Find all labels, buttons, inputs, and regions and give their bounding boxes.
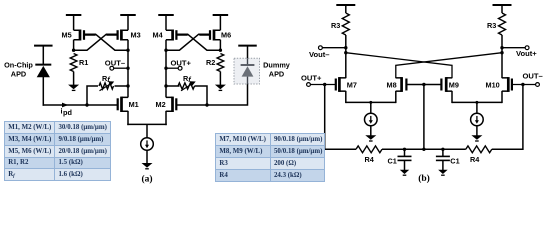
resistor Rf (right feedback): [166, 74, 207, 105]
wire ipd rail (APD to M1 gate): [43, 104, 118, 106]
photodiode Dummy APD: [241, 58, 255, 84]
ground (tail a): [142, 163, 153, 168]
wire M4 gate to M6 drain (cross): [176, 34, 220, 50]
junction source bar left: [369, 101, 372, 104]
svg-text:M1: M1: [129, 100, 139, 109]
photodiode On-Chip APD: [35, 65, 51, 78]
wire gate bus to bottom rail: [423, 85, 425, 150]
wire rail C1R to R4R: [443, 148, 466, 150]
resistor Rf (left feedback): [87, 74, 128, 105]
ground (C1 right): [438, 170, 448, 174]
ground (I2): [365, 135, 376, 140]
wire supply to R3 right: [501, 5, 503, 13]
wire M3 drain down (OUT- net top): [127, 40, 129, 50]
svg-text:On-Chip: On-Chip: [4, 61, 33, 70]
wire M2 source to tail: [165, 111, 167, 125]
junction rail / C1 left: [403, 148, 406, 151]
table circuit (a) component values: [4, 121, 111, 181]
supply bar (APD bias): [34, 45, 53, 47]
resistor R3 (right): [487, 13, 506, 35]
wire M8 source down: [395, 91, 397, 103]
supply bar M3: [120, 14, 136, 16]
wire Vout+ to M8 drain (cross): [396, 53, 502, 78]
label Dummy APD: [263, 61, 291, 79]
wire M3 source to supply: [127, 15, 129, 30]
junction OUT- / R4 rail: [521, 83, 524, 86]
wire I3 to ground: [476, 126, 478, 136]
svg-text:M2: M2: [156, 100, 166, 109]
junction Vout- / cross wire: [344, 51, 347, 54]
wire to current source I2: [370, 102, 372, 113]
resistor R2: [206, 54, 224, 72]
supply bar dummy APD: [238, 45, 257, 47]
wire R2 to ground: [219, 72, 221, 86]
wire OUT- down to rail: [522, 85, 524, 151]
ground (I3): [471, 135, 482, 140]
junction gate bus center: [422, 83, 425, 86]
wire M6 drain down: [219, 40, 221, 50]
wire I2 to ground: [370, 126, 372, 136]
wire M2 gate rail to dummy APD: [176, 84, 247, 106]
junction source bar right: [475, 101, 478, 104]
resistor R4 (left): [356, 146, 382, 164]
svg-text:(a): (a): [141, 174, 152, 185]
dummy APD box: [234, 58, 260, 84]
supply bar M4: [158, 14, 174, 16]
wire M4 drain down (OUT+ net top): [165, 40, 167, 50]
wire M5 gate to M3 drain (cross): [84, 34, 128, 50]
capacitor C1 (right): [436, 149, 460, 170]
ground (C1 left): [400, 170, 410, 174]
node OUT+: [164, 59, 191, 71]
svg-text:R3: R3: [487, 21, 496, 30]
transistor M7: [336, 77, 357, 92]
svg-text:R4: R4: [365, 155, 375, 164]
wire OUT- net vertical: [127, 50, 129, 97]
transistor M9: [441, 77, 459, 92]
wire R1 to ground: [73, 72, 75, 86]
resistor R4 (right): [466, 146, 492, 164]
transistor M6: [199, 30, 231, 41]
svg-text:OUT+: OUT+: [301, 74, 322, 83]
junction Rf1 / OUT- net: [126, 84, 129, 87]
wire tail bar (M1/M2 sources): [127, 123, 167, 125]
transistor M4: [153, 30, 188, 41]
svg-text:R3: R3: [331, 21, 340, 30]
svg-text:pd: pd: [63, 108, 72, 117]
wire R3 left to M7 drain (Vout- net): [345, 35, 347, 78]
junction M3 drain / OUT- net: [126, 49, 129, 52]
junction OUT+ / R4 rail: [323, 83, 326, 86]
wire tail to current source: [146, 124, 148, 137]
ground (R2): [215, 85, 226, 90]
wire OUT+ down to rail: [324, 85, 326, 151]
svg-text:Vout–: Vout–: [309, 50, 330, 59]
wire bottom rail right segment: [492, 148, 523, 150]
current source I2: [365, 113, 378, 126]
junction ipd rail / Rf1: [85, 103, 88, 106]
wire M6 source to supply: [219, 15, 221, 30]
supply bar M6: [213, 14, 229, 16]
wire M7 source down: [345, 91, 347, 103]
supply bar R3 right: [493, 4, 512, 6]
svg-text:R2: R2: [206, 58, 215, 67]
wire supply to R3 left: [345, 5, 347, 13]
supply bar M5: [66, 14, 82, 16]
wire M7/M8 common source bar: [346, 101, 396, 103]
wire OUT+ net vertical: [165, 50, 167, 97]
transistor M2: [156, 97, 177, 112]
node OUT- (input b): [512, 72, 543, 87]
wire M8-M9 gate bus: [406, 84, 441, 86]
svg-text:R1: R1: [79, 58, 88, 67]
current source I3: [471, 113, 484, 126]
wire APD cathode: [42, 46, 44, 65]
current arrow ipd: [62, 103, 68, 108]
resistor R1: [70, 54, 88, 72]
svg-text:M5: M5: [62, 31, 72, 40]
wire M5 source to supply: [73, 15, 75, 30]
current source I1 (tail): [141, 138, 154, 151]
transistor M1: [118, 97, 139, 112]
svg-text:APD: APD: [11, 70, 26, 79]
junction M4 drain / OUT+ net: [164, 49, 167, 52]
ground (R1): [68, 85, 79, 90]
junction rail / gate bus: [422, 148, 425, 151]
label ipd: [61, 107, 72, 117]
wire M6 gate to M4 drain (cross): [166, 34, 210, 50]
wire rail R4L to C1L: [382, 148, 443, 150]
svg-text:Dummy: Dummy: [263, 61, 291, 70]
transistor M10: [486, 77, 512, 92]
label On-Chip APD: [4, 61, 33, 79]
wire M5 drain down: [73, 40, 75, 50]
wire dummy APD cathode: [247, 46, 249, 59]
svg-text:(b): (b): [418, 173, 430, 184]
svg-text:OUT–: OUT–: [523, 72, 543, 81]
junction Rf2 / OUT+ net: [164, 84, 167, 87]
wire bottom rail left segment: [325, 148, 356, 150]
supply bar R3 left: [336, 4, 355, 6]
node OUT-: [105, 59, 130, 71]
resistor R3 (left): [331, 13, 349, 35]
wire M10 source down: [501, 91, 503, 103]
wire current source to ground: [146, 150, 148, 163]
junction rail / C1 right: [441, 148, 444, 151]
junction M5 drain / R1: [72, 49, 75, 52]
capacitor C1 (left): [388, 149, 412, 170]
junction M2 gate rail / Rf2: [205, 103, 208, 106]
wire M9 source down: [451, 91, 453, 103]
svg-text:Vout+: Vout+: [516, 49, 537, 58]
svg-text:M4: M4: [153, 31, 164, 40]
wire M3 gate to M5 drain (cross): [74, 34, 118, 50]
junction M6 drain / R2: [219, 49, 222, 52]
wire M1 source to tail: [127, 111, 129, 125]
node Vout-: [309, 46, 347, 59]
node Vout+: [500, 46, 537, 58]
svg-text:M10: M10: [486, 80, 500, 89]
svg-text:M3: M3: [131, 31, 141, 40]
svg-text:M6: M6: [221, 31, 231, 40]
wire APD anode down: [42, 77, 44, 106]
transistor M5: [62, 30, 96, 41]
transistor M8: [387, 77, 407, 92]
svg-text:C1: C1: [450, 157, 459, 166]
wire to current source I3: [476, 102, 478, 113]
junction Vout+ / cross wire: [500, 51, 503, 54]
svg-text:M8: M8: [387, 80, 397, 89]
wire Vout- to M9 drain (cross): [346, 53, 452, 78]
table circuit (b) component values: [215, 133, 325, 182]
wire M4 source to supply: [165, 15, 167, 30]
svg-text:M7: M7: [347, 80, 357, 89]
svg-text:M9: M9: [449, 80, 459, 89]
svg-text:OUT–: OUT–: [105, 59, 125, 68]
wire M9/M10 common source bar: [452, 101, 502, 103]
svg-text:APD: APD: [269, 70, 284, 79]
node OUT+ (input b): [301, 74, 336, 87]
wire R3 right to M10 drain (Vout+ net): [501, 35, 503, 78]
transistor M3: [106, 30, 140, 41]
svg-text:C1: C1: [388, 157, 397, 166]
svg-text:R4: R4: [470, 155, 480, 164]
